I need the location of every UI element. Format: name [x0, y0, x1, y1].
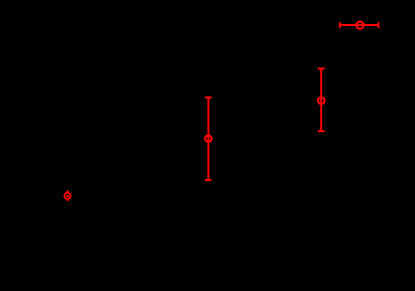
probe node P1 (left, circle with centre dot) — [65, 190, 71, 201]
ring — [65, 193, 71, 199]
wire — [207, 98, 209, 181]
wire stub top — [67, 190, 69, 192]
meter circle — [318, 97, 325, 104]
meter circle — [205, 135, 211, 141]
terminal tick left — [339, 22, 341, 28]
terminal tick top — [205, 97, 212, 99]
ammeter probe A3 (vertical, middle) — [205, 98, 212, 181]
wire — [340, 24, 379, 26]
terminal tick right — [377, 22, 379, 28]
centre dot — [66, 195, 68, 197]
ammeter probe A2 (vertical, right) — [318, 69, 325, 132]
meter circle — [356, 22, 363, 29]
terminal tick bottom — [205, 179, 212, 181]
wire — [320, 69, 322, 132]
wire stub bottom — [67, 199, 69, 201]
terminal tick top — [318, 68, 325, 70]
terminal tick bottom — [318, 130, 325, 132]
ammeter probe A1 (horizontal, top right) — [340, 22, 379, 29]
